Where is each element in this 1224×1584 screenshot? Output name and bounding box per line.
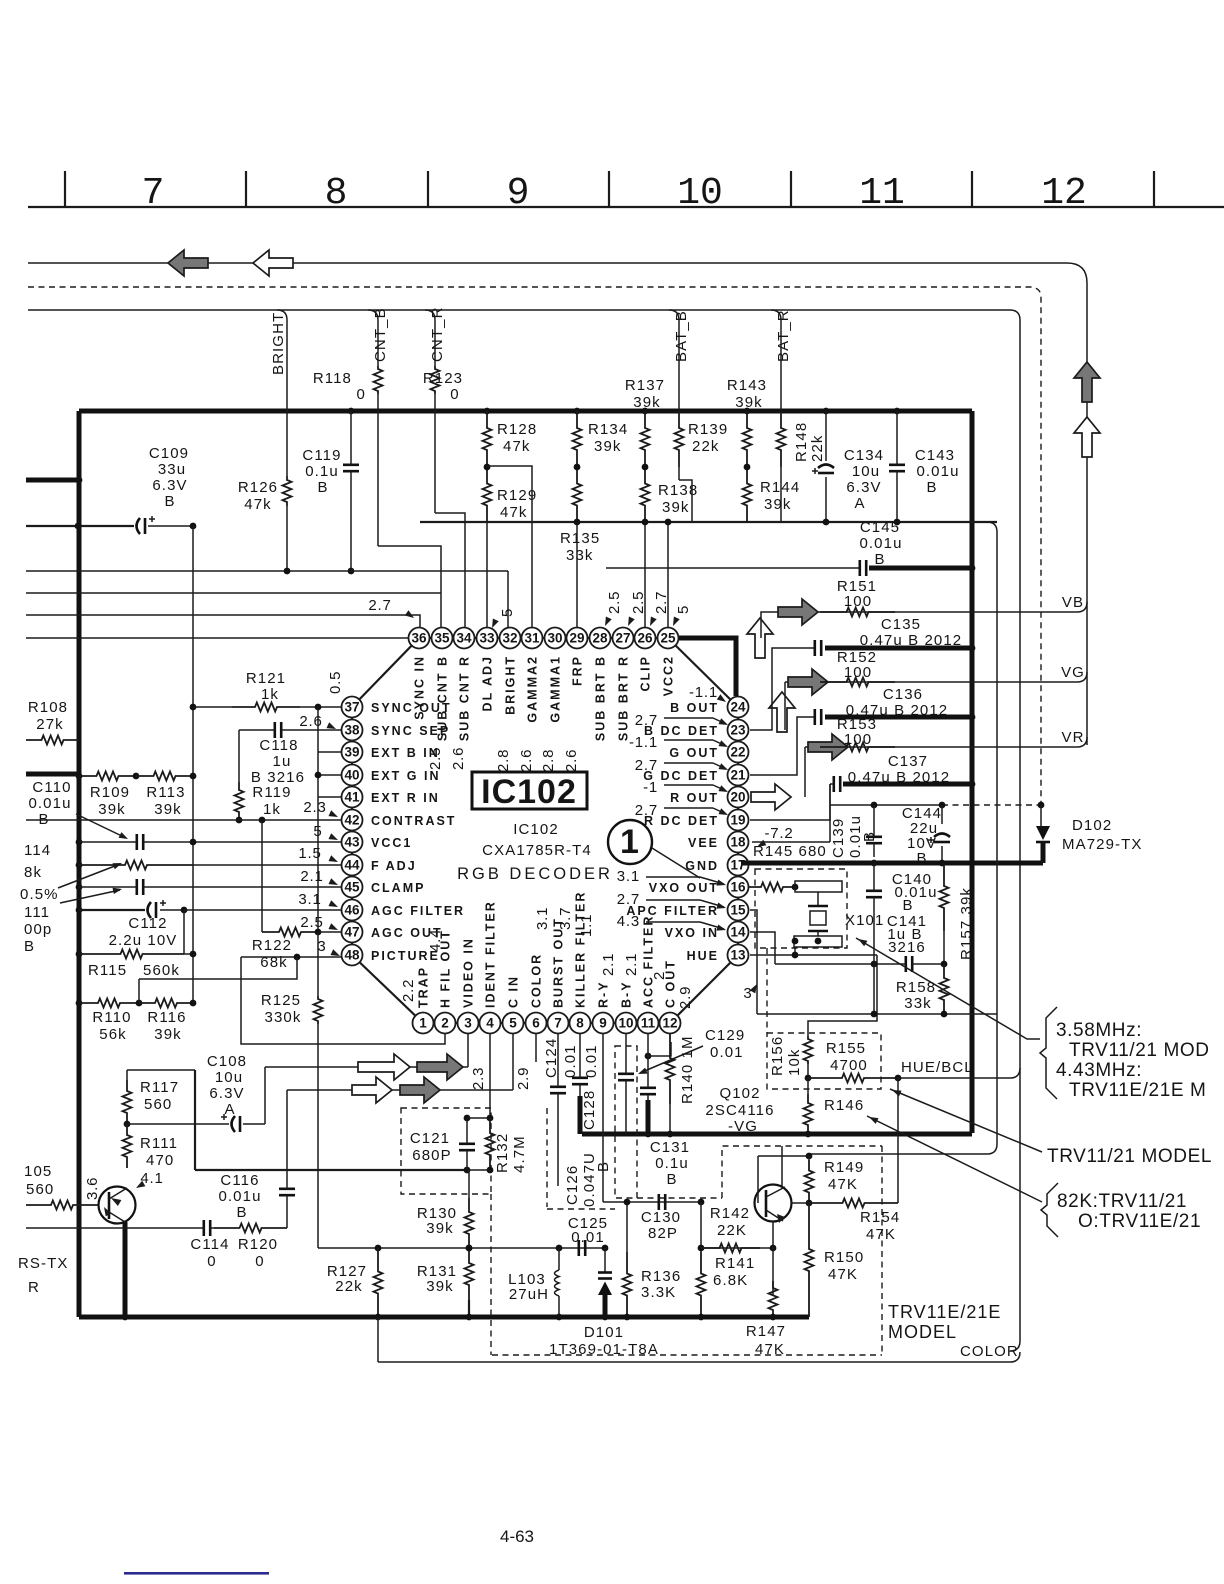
- wire pin5 C IN: [512, 1034, 514, 1090]
- svg-text:0: 0: [357, 386, 366, 403]
- svg-text:22k: 22k: [692, 438, 720, 455]
- resistor R118: [374, 366, 383, 394]
- svg-text:2.7: 2.7: [635, 712, 658, 729]
- svg-text:R OUT: R OUT: [670, 791, 719, 805]
- svg-text:R116: R116: [147, 1009, 186, 1026]
- svg-text:VEE: VEE: [688, 836, 719, 850]
- pin 1: [413, 1013, 434, 1034]
- resistor R147: [769, 1281, 778, 1317]
- svg-text:R145 680: R145 680: [753, 843, 827, 860]
- svg-text:X101: X101: [845, 912, 884, 929]
- svg-text:4-63: 4-63: [500, 1527, 534, 1546]
- node line y1014: [757, 1013, 997, 1015]
- wire BAT_R: [771, 310, 781, 411]
- svg-text:33k: 33k: [904, 995, 932, 1012]
- dashed big box left: [490, 1194, 492, 1355]
- svg-text:SYNC SEP: SYNC SEP: [371, 724, 450, 738]
- arrow up striped on right rail: [1074, 362, 1100, 402]
- wire pin21 to C136: [750, 717, 814, 775]
- resistor R152: [820, 678, 895, 687]
- svg-text:5: 5: [499, 608, 516, 617]
- svg-text:VXO OUT: VXO OUT: [649, 881, 719, 895]
- svg-text:R123: R123: [423, 370, 463, 387]
- pin 25: [658, 628, 679, 649]
- pin 30: [545, 628, 566, 649]
- svg-text:CNT_B: CNT_B: [372, 307, 389, 362]
- pin1 indicator circle: [608, 820, 652, 864]
- pin 40: [342, 765, 363, 786]
- thick rail y1133: [582, 1132, 972, 1137]
- svg-text:R109: R109: [90, 784, 130, 801]
- svg-text:33k: 33k: [566, 547, 594, 564]
- wire C130 row: [603, 1201, 701, 1203]
- svg-text:48: 48: [344, 948, 360, 963]
- svg-text:G OUT: G OUT: [669, 746, 719, 760]
- svg-text:RGB DECODER: RGB DECODER: [457, 865, 613, 883]
- svg-text:470: 470: [146, 1152, 174, 1169]
- wire pin47 net: [261, 820, 263, 932]
- svg-text:2.1: 2.1: [623, 953, 640, 976]
- svg-text:VB: VB: [1062, 594, 1084, 611]
- wire cin feed: [287, 1089, 513, 1091]
- svg-text:2.5: 2.5: [300, 914, 323, 931]
- dashed segment y1198: [637, 1197, 722, 1199]
- svg-text:10: 10: [618, 1016, 633, 1031]
- wire emitter Q102: [772, 1221, 774, 1248]
- capacitor C130: [659, 1194, 665, 1210]
- svg-text:2.6: 2.6: [518, 749, 535, 772]
- svg-text:33u: 33u: [158, 461, 186, 478]
- svg-text:VR: VR: [1061, 729, 1084, 746]
- svg-text:BAT_R: BAT_R: [775, 309, 792, 362]
- resistor R146: [807, 1078, 809, 1094]
- svg-text:R121: R121: [246, 670, 286, 687]
- svg-text:4.4: 4.4: [427, 929, 444, 952]
- resistor R125: [317, 932, 319, 996]
- resistor R128: [484, 408, 491, 415]
- crystal X101: [795, 886, 797, 888]
- wire pin9 down: [602, 1034, 604, 1202]
- pin 9: [593, 1013, 614, 1034]
- svg-text:R120: R120: [238, 1236, 278, 1253]
- wire pin33 feed: [486, 522, 488, 628]
- transistor Q101: [99, 1187, 136, 1224]
- capacitor C137: [834, 776, 840, 792]
- arrow hollow cin: [352, 1077, 392, 1103]
- resistor R110: [76, 1000, 83, 1007]
- svg-text:11: 11: [859, 172, 905, 215]
- svg-text:TRV11E/21E: TRV11E/21E: [888, 1302, 1001, 1322]
- svg-text:B: B: [926, 479, 937, 496]
- svg-text:R157 39k: R157 39k: [958, 887, 975, 960]
- pin 38: [342, 720, 363, 741]
- svg-text:Q102: Q102: [719, 1085, 760, 1102]
- svg-text:3.58MHz:: 3.58MHz:: [1056, 1020, 1142, 1041]
- dashed box R155: [767, 1033, 881, 1089]
- capacitor C109: [137, 518, 141, 534]
- svg-text:0.1u: 0.1u: [655, 1155, 689, 1172]
- svg-text:28: 28: [592, 631, 608, 646]
- svg-text:MODEL: MODEL: [888, 1322, 957, 1342]
- wire R139 to mid rail: [678, 467, 680, 480]
- svg-text:0: 0: [450, 386, 459, 403]
- pin 5: [503, 1013, 524, 1034]
- top bus wire: [28, 262, 1067, 264]
- arrow striped VR: [808, 734, 848, 760]
- pin 47: [342, 922, 363, 943]
- wire pin26 feed: [644, 522, 646, 628]
- svg-text:25: 25: [660, 631, 676, 646]
- resistor R116: [139, 999, 193, 1008]
- svg-text:47: 47: [344, 925, 359, 940]
- svg-text:R155: R155: [826, 1040, 866, 1057]
- pin 24: [728, 697, 749, 718]
- svg-text:C126: C126: [564, 1165, 581, 1205]
- pointer 82K: [867, 1116, 1042, 1202]
- svg-text:6.3V: 6.3V: [152, 477, 187, 494]
- main supply bus top: [79, 409, 972, 414]
- svg-text:B-Y: B-Y: [620, 980, 634, 1008]
- pin 37: [342, 697, 363, 718]
- wire collector chain: [127, 1069, 195, 1071]
- dashed box pin10: [615, 1046, 637, 1198]
- svg-text:TRV11/21 MODEL: TRV11/21 MODEL: [1047, 1146, 1212, 1167]
- svg-text:C IN: C IN: [507, 975, 521, 1008]
- svg-text:R110: R110: [92, 1009, 131, 1026]
- wire pin4 down: [489, 1034, 491, 1118]
- svg-text:C116: C116: [220, 1172, 259, 1189]
- svg-text:39k: 39k: [764, 496, 792, 513]
- svg-text:GND: GND: [685, 859, 719, 873]
- resistor R149: [808, 1156, 810, 1160]
- capacitor C111 line to pin45: [76, 884, 83, 891]
- resistor R141: [700, 1202, 702, 1252]
- svg-text:R: R: [28, 1279, 40, 1296]
- svg-text:0.47u B 2012: 0.47u B 2012: [848, 769, 950, 786]
- capacitor C128: [572, 1078, 588, 1084]
- arrow striped VB: [778, 599, 818, 625]
- resistor R139: [675, 411, 684, 467]
- diode D101 varicap: [604, 1248, 606, 1272]
- wire pin11-12 jumper: [648, 1042, 671, 1056]
- svg-text:41: 41: [344, 790, 360, 805]
- svg-text:5: 5: [675, 605, 692, 614]
- svg-text:VCC2: VCC2: [662, 655, 676, 696]
- svg-text:SUB BRT B: SUB BRT B: [594, 655, 608, 741]
- svg-text:4.3: 4.3: [617, 913, 640, 930]
- pin 28: [590, 628, 611, 649]
- resistor R142: [701, 1244, 760, 1253]
- wire BAT_B: [669, 310, 679, 411]
- svg-text:R156: R156: [769, 1036, 786, 1076]
- dashed bus wire: [28, 287, 1041, 805]
- wire pin13 HUE: [750, 954, 877, 956]
- svg-text:HUE/BCL: HUE/BCL: [901, 1059, 974, 1076]
- capacitor C113 line to pin43: [76, 839, 83, 846]
- svg-text:330k: 330k: [265, 1009, 302, 1026]
- svg-text:560k: 560k: [143, 962, 180, 979]
- capacitor C134: [823, 408, 830, 415]
- svg-text:10u: 10u: [852, 463, 880, 480]
- svg-text:35: 35: [434, 631, 450, 646]
- capacitor C119: [348, 408, 355, 415]
- svg-text:D102: D102: [1072, 817, 1112, 834]
- resistor R150: [805, 1203, 814, 1317]
- wire pin38 net: [275, 722, 281, 738]
- svg-text:39k: 39k: [735, 394, 763, 411]
- svg-text:VCC1: VCC1: [371, 836, 412, 850]
- svg-text:C134: C134: [844, 447, 884, 464]
- wire R148 down: [780, 467, 782, 522]
- wire R130 node: [467, 1169, 490, 1171]
- svg-text:19: 19: [730, 813, 745, 828]
- vertical node wire x193: [192, 526, 194, 1003]
- svg-text:34: 34: [456, 631, 472, 646]
- wire x997: [987, 522, 997, 1154]
- svg-text:100: 100: [844, 593, 872, 610]
- svg-text:26: 26: [637, 631, 653, 646]
- svg-text:B OUT: B OUT: [670, 701, 719, 715]
- svg-text:CLAMP: CLAMP: [371, 881, 425, 895]
- svg-text:HUE: HUE: [687, 949, 719, 963]
- wire pin6 down: [535, 1034, 537, 1062]
- svg-text:16: 16: [730, 880, 746, 895]
- svg-text:27k: 27k: [36, 716, 64, 733]
- pin 31: [522, 628, 543, 649]
- svg-text:R108: R108: [28, 699, 68, 716]
- svg-text:29: 29: [569, 631, 584, 646]
- wire stub left top: [26, 478, 79, 483]
- resistor R158: [940, 964, 949, 1014]
- svg-text:C128: C128: [581, 1090, 598, 1130]
- svg-text:2.8: 2.8: [495, 749, 512, 772]
- pin 23: [728, 720, 749, 741]
- svg-text:CNT_R: CNT_R: [429, 306, 446, 362]
- wire emitter: [123, 1222, 128, 1317]
- svg-text:105: 105: [24, 1163, 52, 1180]
- svg-text:R122: R122: [252, 937, 292, 954]
- svg-text:R154: R154: [860, 1209, 900, 1226]
- resistor R136: [626, 1202, 628, 1252]
- svg-text:2.7: 2.7: [653, 591, 670, 614]
- resistor R143: [744, 408, 751, 415]
- svg-text:C139: C139: [830, 818, 847, 858]
- wire VB: [761, 612, 772, 638]
- wire CNT_R: [425, 310, 435, 366]
- svg-text:C129: C129: [705, 1027, 745, 1044]
- dashed big box bottom: [492, 1354, 882, 1356]
- svg-text:0.01u: 0.01u: [218, 1188, 261, 1205]
- vertical node wire x317: [317, 707, 319, 932]
- svg-text:33: 33: [479, 631, 495, 646]
- capacitor C129: [618, 1074, 634, 1080]
- IC102 outline: [352, 638, 419, 707]
- pin 34: [454, 628, 475, 649]
- frame wire: [28, 310, 1020, 1351]
- pin 3: [458, 1013, 479, 1034]
- capacitor C108: [232, 1116, 236, 1132]
- pin 41: [342, 787, 363, 808]
- wire pin25 feed: [667, 522, 669, 628]
- svg-text:9: 9: [599, 1016, 607, 1031]
- svg-text:B: B: [595, 1161, 612, 1172]
- arrow hollow video: [358, 1054, 410, 1080]
- svg-text:C130: C130: [641, 1209, 681, 1226]
- svg-text:20: 20: [730, 790, 745, 805]
- ruler ticks: [64, 171, 66, 207]
- resistor R119: [238, 730, 240, 782]
- svg-text:8: 8: [576, 1016, 584, 1031]
- resistor R157: [940, 863, 949, 931]
- wire stub left thick: [26, 772, 79, 777]
- svg-text:C135: C135: [881, 616, 921, 633]
- pin 8: [570, 1013, 591, 1034]
- svg-text:VXO IN: VXO IN: [665, 926, 719, 940]
- svg-text:0.1u: 0.1u: [305, 463, 339, 480]
- svg-text:R126: R126: [238, 479, 278, 496]
- svg-text:TRAP: TRAP: [417, 966, 431, 1008]
- svg-text:0.47u B 2012: 0.47u B 2012: [860, 632, 962, 649]
- svg-text:0.5%: 0.5%: [20, 886, 59, 903]
- svg-text:39k: 39k: [426, 1278, 454, 1295]
- svg-text:C119: C119: [302, 447, 341, 464]
- svg-text:2: 2: [651, 971, 668, 980]
- main box right edge: [970, 411, 975, 1133]
- svg-text:39k: 39k: [662, 499, 690, 516]
- svg-text:2.7: 2.7: [635, 802, 658, 819]
- svg-text:F ADJ: F ADJ: [371, 859, 417, 873]
- svg-text:3: 3: [317, 938, 326, 955]
- svg-text:6.8K: 6.8K: [713, 1272, 748, 1289]
- svg-text:1: 1: [419, 1016, 427, 1031]
- wire pin7 down: [557, 1133, 559, 1135]
- dashed vert x767: [766, 948, 768, 1033]
- svg-text:3.3K: 3.3K: [641, 1284, 676, 1301]
- svg-text:R143: R143: [727, 377, 767, 394]
- svg-text:C145: C145: [860, 519, 900, 536]
- svg-text:2: 2: [441, 1016, 449, 1031]
- svg-text:22: 22: [730, 745, 745, 760]
- capacitor C141: [906, 956, 912, 972]
- svg-text:40: 40: [344, 768, 359, 783]
- wire to pin36: [26, 615, 420, 628]
- svg-text:45: 45: [344, 880, 360, 895]
- svg-text:B: B: [902, 897, 913, 914]
- wire pin15 APC: [750, 910, 757, 1014]
- pin 19: [728, 810, 749, 831]
- pin 48: [342, 945, 363, 966]
- wire video feed: [265, 1066, 468, 1068]
- svg-text:56k: 56k: [99, 1026, 127, 1043]
- arrow right hollow pin20: [751, 784, 791, 810]
- svg-text:0.01: 0.01: [583, 1044, 600, 1078]
- pin 43: [342, 832, 363, 853]
- resistor R151: [820, 608, 895, 617]
- svg-text:39k: 39k: [98, 801, 126, 818]
- pin 46: [342, 900, 363, 921]
- resistor R137: [642, 408, 649, 415]
- svg-text:3: 3: [743, 985, 752, 1002]
- svg-text:CXA1785R-T4: CXA1785R-T4: [482, 842, 592, 859]
- wire y1154: [809, 1153, 987, 1155]
- svg-text:R119: R119: [252, 784, 291, 801]
- arrow up hollow on right rail: [1074, 417, 1100, 457]
- wire pin23 to C135: [750, 648, 814, 730]
- svg-text:47k: 47k: [503, 438, 531, 455]
- pin 21: [728, 765, 749, 786]
- svg-text:3: 3: [464, 1016, 472, 1031]
- svg-text:R135: R135: [560, 530, 600, 547]
- capacitor C114: [204, 1220, 210, 1236]
- svg-text:-7.2: -7.2: [764, 825, 793, 842]
- pin 45: [342, 877, 363, 898]
- svg-text:C143: C143: [915, 447, 955, 464]
- svg-text:-VG: -VG: [728, 1118, 758, 1135]
- svg-text:R137: R137: [625, 377, 665, 394]
- svg-text:C131: C131: [650, 1139, 690, 1156]
- svg-text:C124: C124: [543, 1038, 560, 1078]
- svg-text:B: B: [861, 831, 878, 842]
- resistor R123: [431, 366, 440, 394]
- arrow up hollow pin22: [769, 692, 795, 732]
- svg-text:EXT G IN: EXT G IN: [371, 769, 440, 783]
- pin 15: [728, 900, 749, 921]
- arrow striped cin: [400, 1077, 440, 1103]
- svg-text:EXT B IN: EXT B IN: [371, 746, 440, 760]
- svg-text:82P: 82P: [648, 1225, 678, 1242]
- svg-text:42: 42: [344, 813, 359, 828]
- svg-text:R117: R117: [140, 1079, 179, 1096]
- svg-text:2.7: 2.7: [617, 891, 640, 908]
- svg-text:VIDEO IN: VIDEO IN: [462, 937, 476, 1008]
- svg-text:32: 32: [502, 631, 517, 646]
- svg-text:39k: 39k: [154, 801, 182, 818]
- arrow left striped: [168, 250, 208, 276]
- color box bottom edge: [378, 1352, 1020, 1362]
- svg-text:47K: 47K: [866, 1226, 896, 1243]
- pin 6: [526, 1013, 547, 1034]
- resistor R140: [666, 1034, 675, 1104]
- svg-text:2.2u 10V: 2.2u 10V: [109, 932, 178, 949]
- svg-text:0.01: 0.01: [571, 1229, 605, 1246]
- wire pin42 CONTRAST: [26, 819, 341, 821]
- svg-text:BRIGHT: BRIGHT: [504, 655, 518, 715]
- capacitor C144: [941, 805, 943, 824]
- wire y1170: [195, 1169, 467, 1171]
- svg-text:2.6: 2.6: [299, 713, 322, 730]
- pin 36: [409, 628, 430, 649]
- svg-text:10u: 10u: [215, 1069, 243, 1086]
- dashed segment C131: [722, 1146, 882, 1198]
- wire y1248: [559, 1247, 605, 1249]
- svg-text:C137: C137: [888, 753, 928, 770]
- svg-text:46: 46: [344, 903, 360, 918]
- dashed box C121: [401, 1108, 491, 1194]
- svg-text:C108: C108: [207, 1053, 247, 1070]
- svg-text:R139: R139: [688, 421, 728, 438]
- svg-text:0.01u: 0.01u: [28, 795, 71, 812]
- resistor R115: [76, 951, 83, 958]
- svg-text:111: 111: [24, 904, 50, 921]
- svg-text:10: 10: [677, 172, 723, 215]
- svg-text:B: B: [317, 479, 328, 496]
- pin 22: [728, 742, 749, 763]
- wire collector Q102: [781, 1146, 783, 1186]
- svg-text:12: 12: [662, 1016, 677, 1031]
- capacitor C121: [459, 1144, 475, 1150]
- resistor R154: [809, 1199, 898, 1208]
- footer blue rule: [124, 1572, 269, 1575]
